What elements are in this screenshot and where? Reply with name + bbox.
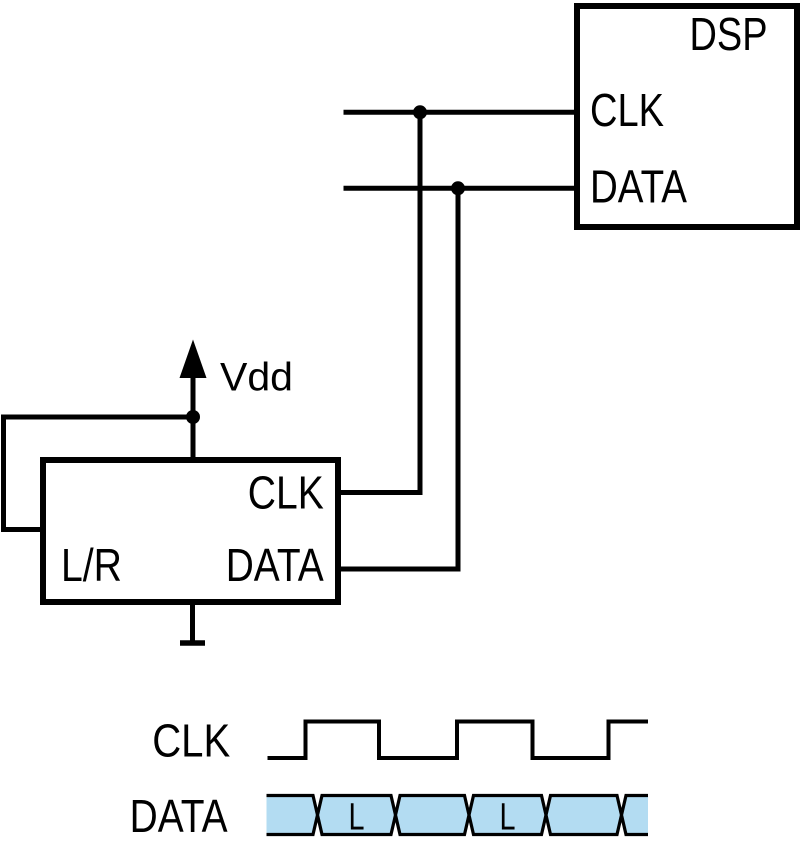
power Vdd — [180, 340, 294, 460]
DATA bus segment 5 — [546, 796, 622, 835]
DATA bus segment 4 (L) — [469, 796, 546, 835]
svg-text:DATA: DATA — [590, 161, 687, 213]
wire CLK vertical + pin — [339, 112, 420, 492]
DATA bus segment 3 — [396, 796, 470, 835]
CLK waveform — [268, 722, 649, 759]
node Vdd junction — [186, 410, 200, 424]
node DATA junction — [451, 181, 465, 195]
svg-text:L: L — [500, 797, 516, 839]
svg-text:DSP: DSP — [690, 8, 768, 60]
svg-text:DATA: DATA — [130, 790, 228, 842]
svg-text:CLK: CLK — [590, 84, 664, 136]
svg-text:CLK: CLK — [248, 466, 324, 518]
ground — [180, 604, 205, 643]
wire DATA vertical + pin — [339, 188, 458, 569]
svg-text:Vdd: Vdd — [220, 356, 293, 400]
svg-text:DATA: DATA — [226, 539, 324, 591]
node CLK junction — [413, 105, 427, 119]
wire L/R to Vdd — [4, 417, 194, 530]
svg-text:L/R: L/R — [61, 539, 122, 591]
DATA bus segment 1 — [267, 796, 318, 835]
wire CLK net — [344, 110, 579, 115]
microphone box U1 — [43, 460, 338, 602]
DATA bus segment 6 — [622, 796, 649, 835]
DSP box U2 — [577, 6, 797, 227]
DATA bus segment 2 (L) — [318, 796, 396, 835]
wire DATA net — [344, 186, 579, 191]
svg-text:L: L — [349, 797, 365, 839]
svg-text:CLK: CLK — [152, 715, 230, 767]
